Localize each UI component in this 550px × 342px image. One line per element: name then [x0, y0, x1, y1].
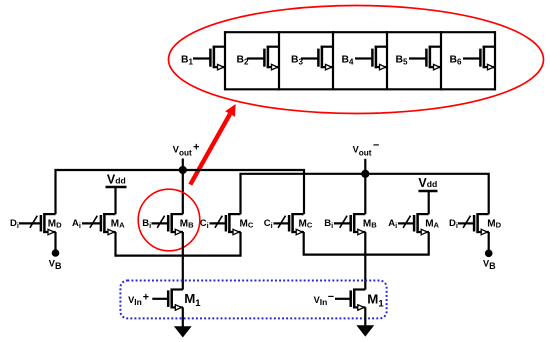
ground arrow right	[356, 325, 374, 336]
wire: right tail net (MC source - MA source)	[304, 232, 429, 255]
power Vdd right symbol	[418, 176, 437, 214]
wire: left tail net (MA source - MC source)	[116, 232, 241, 256]
transistor B1	[181, 46, 225, 70]
svg-text:Vdd: Vdd	[107, 173, 126, 187]
wire: MD-right source to VB	[488, 232, 490, 252]
bank vertical wire 2	[278, 31, 280, 90]
wire: Vout+ stub and MB-left drain	[182, 159, 184, 215]
svg-text:MA: MA	[111, 219, 125, 230]
bank vertical wire 1	[224, 31, 226, 90]
transistor B2	[237, 46, 280, 70]
svg-text:MA: MA	[425, 219, 439, 230]
svg-text:MD: MD	[48, 219, 62, 230]
transistor MA right with gate input Ai	[388, 213, 439, 235]
power Vdd left symbol	[106, 173, 127, 215]
transistor MC left with gate input Ci	[200, 213, 254, 235]
svg-text:MD: MD	[487, 219, 501, 230]
transistor MB left with gate input Bi	[142, 213, 194, 235]
wire: MB-left source to M1-left drain	[182, 232, 184, 290]
wire: MD-left source to VB	[54, 232, 56, 252]
blue dotted box around tail pair	[120, 281, 386, 319]
transistor B6	[450, 46, 496, 70]
wire: MB-right source to M1-right drain	[364, 232, 366, 290]
svg-text:MB: MB	[180, 219, 194, 230]
bank bottom rail wire	[225, 88, 495, 90]
bank vertical wire 6	[494, 31, 496, 90]
ground arrow left	[174, 326, 192, 337]
svg-text:MC: MC	[299, 219, 313, 230]
red arrow from MB to bank	[190, 104, 235, 185]
bank top rail wire	[225, 31, 495, 33]
red circle highlight around MB left	[138, 189, 200, 251]
junction dot Vout+	[179, 166, 187, 174]
red ellipse highlight around binary bank	[169, 6, 544, 114]
transistor M1 right with input Vin-	[314, 289, 385, 311]
transistor B3	[291, 46, 333, 70]
wire: Vout+ net (MD-left drain, rail, MC-right drain)	[56, 170, 305, 214]
terminal dot VB right	[485, 250, 493, 258]
wire: M1-right source to ground	[364, 307, 366, 327]
bank vertical wire 4	[386, 31, 388, 90]
junction dot Vout-	[361, 170, 369, 178]
transistor MD left with gate input Di	[10, 213, 62, 235]
svg-text:Vdd: Vdd	[418, 176, 437, 190]
wire: Vout- net (MC-left drain, rail, MD-right drain)	[241, 174, 489, 214]
svg-text:MB: MB	[363, 219, 377, 230]
transistor MC right with gate input Ci	[264, 213, 313, 235]
wire: M1-left source to ground	[182, 307, 184, 328]
transistor M1 left with input Vin+	[128, 289, 201, 311]
bank vertical wire 3	[332, 31, 334, 90]
svg-text:MC: MC	[240, 219, 254, 230]
transistor MB right with gate input Bi	[324, 213, 377, 235]
bank vertical wire 5	[440, 31, 442, 90]
transistor B5	[396, 46, 442, 70]
transistor B4	[342, 46, 388, 70]
transistor MD right with gate input Di	[449, 213, 502, 235]
wire: Vout- stub and MB-right drain	[364, 159, 366, 214]
transistor MA left with gate input Ai	[72, 213, 125, 235]
terminal dot VB left	[52, 249, 60, 257]
